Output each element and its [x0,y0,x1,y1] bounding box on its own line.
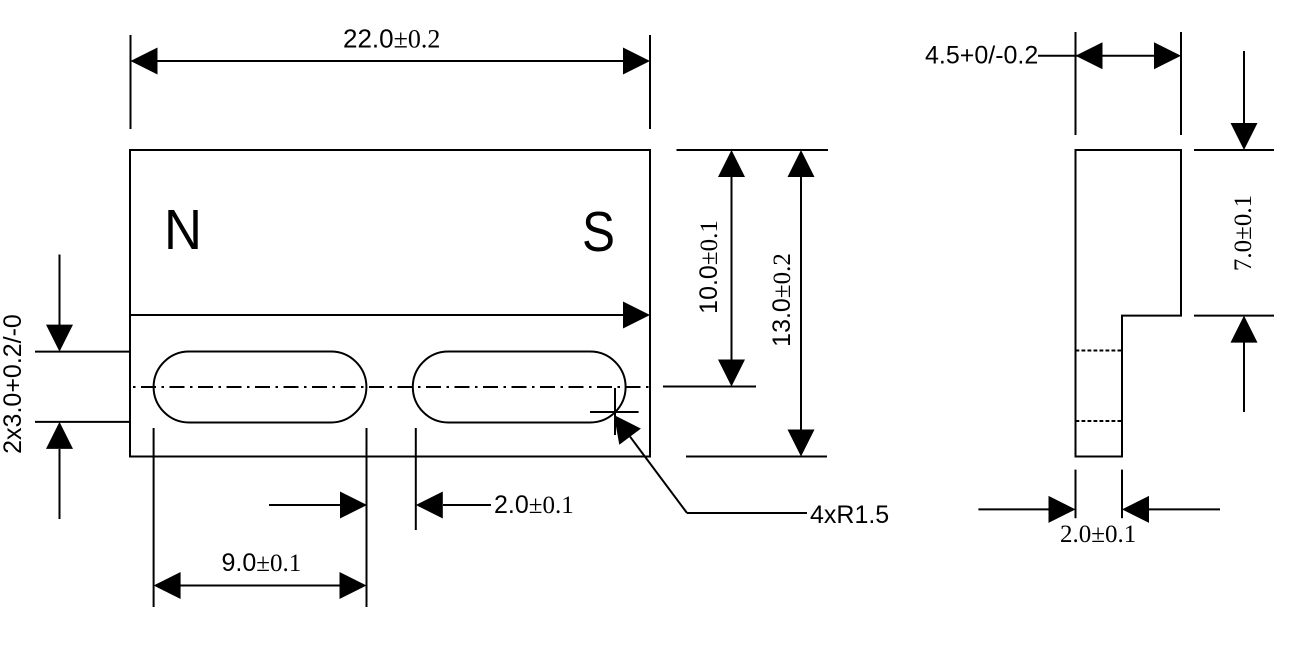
svg-text:9.0±0.1: 9.0±0.1 [222,549,302,577]
svg-text:4xR1.5: 4xR1.5 [810,501,889,529]
svg-text:22.0±0.2: 22.0±0.2 [343,24,440,54]
svg-text:2.0±0.1: 2.0±0.1 [494,491,574,519]
svg-text:S: S [582,200,615,264]
svg-text:10.0±0.1: 10.0±0.1 [695,220,723,314]
svg-text:7.0±0.1: 7.0±0.1 [1230,195,1257,271]
svg-text:13.0±0.2: 13.0±0.2 [768,253,796,347]
svg-text:2x3.0+0.2/-0: 2x3.0+0.2/-0 [0,314,27,454]
svg-text:2.0±0.1: 2.0±0.1 [1060,521,1136,548]
svg-text:N: N [164,198,202,262]
svg-text:4.5+0/-0.2: 4.5+0/-0.2 [925,42,1038,70]
